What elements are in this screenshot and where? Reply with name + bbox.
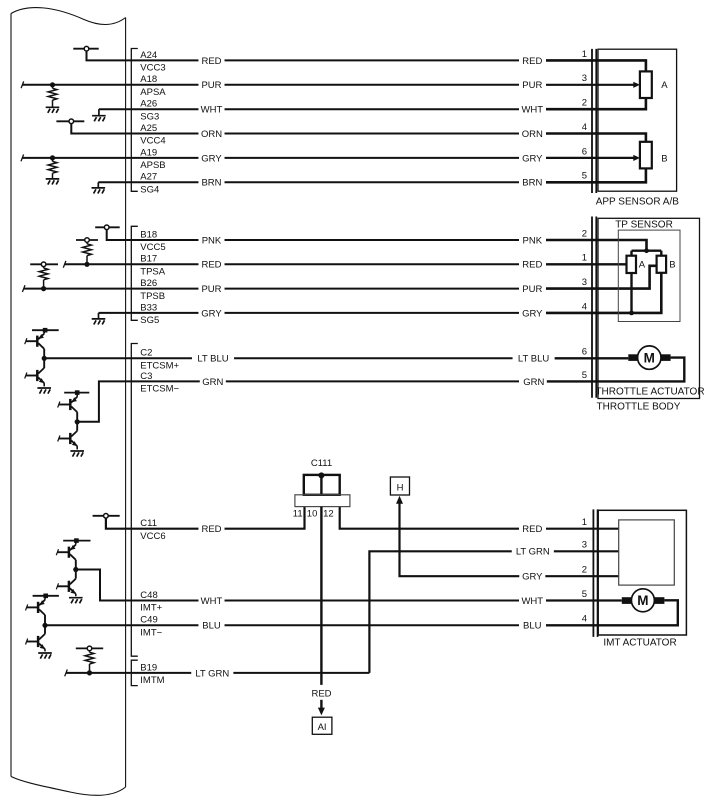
svg-text:10: 10: [307, 509, 318, 520]
resistor IMTM pull-up: [85, 651, 94, 673]
transistor ETCSM- high side: [58, 393, 77, 413]
power source VCC4: [56, 119, 84, 124]
svg-text:TPSB: TPSB: [140, 291, 165, 302]
svg-text:B17: B17: [140, 254, 157, 265]
power source VCC3: [73, 46, 98, 51]
node TP supply junction: [644, 248, 649, 253]
svg-text:LT GRN: LT GRN: [516, 547, 550, 558]
svg-text:A25: A25: [140, 123, 157, 134]
node IMT- junction: [42, 623, 47, 628]
svg-text:B33: B33: [140, 302, 157, 313]
svg-text:GRY: GRY: [522, 153, 543, 164]
node ETCSM- junction: [75, 419, 80, 424]
wire TPSA RED: [63, 261, 626, 268]
svg-text:B18: B18: [140, 229, 157, 240]
wire ETCSM- collector: [76, 412, 78, 431]
resistor TPSA pull-up: [83, 242, 92, 264]
svg-text:PUR: PUR: [522, 80, 542, 91]
svg-text:TPSA: TPSA: [140, 267, 165, 278]
motor IMT actuator: [631, 589, 654, 612]
svg-text:2: 2: [582, 98, 587, 109]
svg-text:B: B: [669, 260, 675, 271]
svg-text:3: 3: [582, 73, 587, 84]
svg-text:BRN: BRN: [522, 178, 542, 189]
svg-text:WHT: WHT: [521, 596, 543, 607]
arrow to AI: [318, 700, 325, 716]
svg-text:VCC5: VCC5: [140, 242, 165, 253]
svg-text:SG5: SG5: [140, 315, 159, 326]
power source TPSB pull-up: [30, 262, 58, 267]
svg-text:IMT+: IMT+: [140, 603, 162, 614]
potentiometer B: [640, 142, 652, 169]
ETCSM+ driver supply rail: [32, 328, 59, 333]
svg-text:C2: C2: [140, 348, 152, 359]
svg-text:A: A: [661, 80, 668, 91]
svg-text:BLU: BLU: [202, 621, 221, 632]
wire VCC5 PNK: [107, 230, 519, 241]
svg-text:6: 6: [582, 146, 587, 157]
THROTTLE BODY connector double line: [592, 217, 596, 398]
wire APSB GRY: [21, 155, 640, 162]
svg-text:SG3: SG3: [140, 111, 159, 122]
wire SG5 GRY: [99, 312, 520, 314]
svg-text:B26: B26: [140, 278, 157, 289]
svg-text:VCC4: VCC4: [140, 136, 165, 147]
svg-text:PNK: PNK: [523, 235, 543, 246]
svg-text:3: 3: [582, 540, 587, 551]
svg-text:6: 6: [582, 347, 587, 358]
transistor ETCSM- low side: [58, 431, 77, 450]
svg-text:THROTTLE BODY: THROTTLE BODY: [597, 402, 681, 413]
svg-text:VCC3: VCC3: [140, 63, 165, 74]
node IMTM junction: [87, 670, 92, 675]
svg-text:RED: RED: [311, 688, 331, 699]
svg-text:1: 1: [582, 49, 587, 60]
ground ETCSM+ driver: [37, 388, 51, 394]
transistor IMT- low side: [26, 634, 46, 652]
ground ETCSM- driver: [70, 451, 84, 457]
svg-text:ORN: ORN: [522, 129, 543, 140]
power source VCC5: [95, 225, 120, 230]
ground SG4: [92, 182, 106, 193]
svg-text:PNK: PNK: [202, 235, 222, 246]
power source VCC6: [93, 514, 120, 519]
IMT ACTUATOR box: [598, 510, 686, 635]
connector C111: [293, 458, 350, 520]
transistor IMT- high side: [26, 596, 46, 615]
ECM connector bracket 1: [131, 49, 138, 192]
wire color labels section 1 left: [198, 55, 224, 65]
svg-text:BRN: BRN: [201, 178, 221, 189]
svg-text:LT BLU: LT BLU: [518, 354, 549, 365]
svg-text:GRY: GRY: [522, 572, 543, 583]
svg-text:SG4: SG4: [140, 185, 159, 196]
node TPSA junction: [84, 262, 89, 267]
arrow to H and wire GRY: [396, 496, 619, 576]
svg-text:GRN: GRN: [202, 377, 223, 388]
svg-text:B: B: [661, 153, 667, 164]
svg-text:RED: RED: [522, 524, 542, 535]
svg-text:A: A: [639, 260, 646, 271]
svg-text:A18: A18: [140, 74, 157, 85]
svg-text:B19: B19: [140, 662, 157, 673]
throttle motor left brush: [628, 354, 637, 361]
svg-text:IMT ACTUATOR: IMT ACTUATOR: [603, 638, 676, 649]
wire TP pot A ground leg: [630, 273, 632, 313]
svg-text:RED: RED: [522, 260, 542, 271]
throttle motor right brush: [661, 354, 671, 361]
svg-text:ORN: ORN: [201, 129, 222, 140]
node ETCSM+ junction: [42, 356, 47, 361]
potentiometer A: [640, 71, 652, 98]
svg-text:M: M: [644, 350, 655, 365]
wire IMT+ collector: [75, 560, 77, 579]
wire VCC6 RED left: [106, 507, 305, 529]
wire color labels section 4 left: [198, 524, 224, 534]
svg-text:5: 5: [582, 171, 587, 182]
svg-text:RED: RED: [522, 56, 542, 67]
ECM torn page edge: [11, 8, 126, 796]
svg-text:2: 2: [582, 565, 587, 576]
svg-text:5: 5: [582, 589, 587, 600]
svg-text:12: 12: [323, 509, 334, 520]
svg-text:C111: C111: [311, 458, 332, 469]
svg-text:C3: C3: [140, 371, 152, 382]
svg-text:3: 3: [582, 277, 587, 288]
wire ETCSM- GRN: [77, 381, 519, 421]
svg-text:WHT: WHT: [201, 596, 223, 607]
ECM connector bracket 4: [131, 660, 138, 685]
THROTTLE BODY box: [598, 218, 700, 398]
power source TPSA pull-up: [76, 238, 98, 243]
transistor IMT+ high side: [56, 541, 76, 560]
svg-text:C48: C48: [140, 590, 157, 601]
wire LT GRN pin3: [369, 551, 618, 673]
svg-text:M: M: [637, 593, 648, 608]
svg-text:VCC6: VCC6: [140, 531, 165, 542]
svg-text:APSB: APSB: [140, 160, 165, 171]
ECM connector bracket 3: [131, 344, 138, 657]
svg-text:GRY: GRY: [201, 308, 222, 319]
TP potentiometer A: [627, 256, 637, 273]
ground APSB: [46, 179, 60, 185]
ground SG5: [92, 313, 106, 325]
IMT connector double line: [593, 509, 597, 637]
svg-text:RED: RED: [201, 56, 221, 67]
svg-text:APSA: APSA: [140, 87, 166, 98]
ECM connector bracket 2: [131, 226, 138, 320]
wire color labels section 1 right: [519, 55, 545, 65]
ground APSA: [46, 107, 60, 113]
wire VCC4 ORN: [71, 124, 519, 134]
svg-text:A27: A27: [140, 172, 157, 183]
wire TPSB PUR: [22, 266, 656, 292]
node APSB junction: [50, 155, 55, 160]
transistor ETCSM+ high side: [25, 330, 45, 349]
svg-text:4: 4: [582, 614, 587, 625]
wire SG4 BRN: [98, 181, 519, 183]
svg-text:RED: RED: [201, 524, 221, 535]
svg-text:RED: RED: [201, 260, 221, 271]
svg-text:THROTTLE ACTUATOR: THROTTLE ACTUATOR: [595, 387, 704, 398]
svg-text:GRY: GRY: [201, 153, 222, 164]
IMT motor right brush: [654, 597, 664, 604]
power source IMTM pull-up: [76, 646, 103, 651]
wire SG3 WHT: [99, 108, 519, 110]
ETCSM- driver supply rail: [64, 390, 89, 395]
svg-text:GRY: GRY: [522, 308, 543, 319]
node SG5 junction: [629, 311, 634, 316]
TP potentiometer B: [657, 256, 667, 273]
resistor TPSB pull-up: [39, 267, 48, 289]
svg-text:PUR: PUR: [522, 284, 542, 295]
wire C111 pin 10 down: [320, 507, 322, 685]
wire color labels section 2 left: [198, 235, 224, 245]
svg-text:IMTM: IMTM: [140, 675, 164, 686]
wire color labels section 2 right: [519, 235, 545, 245]
svg-text:LT BLU: LT BLU: [197, 354, 228, 365]
box H: [390, 477, 409, 495]
ground SG3: [92, 109, 106, 121]
wire APSA PUR: [21, 81, 640, 88]
svg-text:PUR: PUR: [201, 80, 221, 91]
svg-text:ETCSM−: ETCSM−: [140, 384, 179, 395]
wire TP pots supply bus: [632, 251, 662, 256]
svg-text:A19: A19: [140, 147, 157, 158]
svg-text:APP SENSOR A/B: APP SENSOR A/B: [596, 197, 680, 208]
IMT solenoid block: [619, 520, 675, 585]
wire color labels section 3: [192, 353, 234, 363]
transistor ETCSM+ low side: [25, 368, 45, 387]
svg-text:H: H: [397, 482, 404, 493]
svg-text:LT GRN: LT GRN: [195, 668, 229, 679]
svg-text:TP SENSOR: TP SENSOR: [615, 220, 673, 231]
ground IMT- driver: [38, 653, 52, 659]
svg-text:C49: C49: [140, 615, 157, 626]
svg-text:1: 1: [582, 253, 587, 264]
svg-text:AI: AI: [318, 722, 327, 733]
wire IMT- BLU: [45, 624, 519, 626]
node IMT+ junction: [73, 567, 78, 572]
wire VCC3 RED: [87, 51, 520, 61]
wire IMTM LT GRN: [65, 670, 370, 677]
motor throttle actuator: [638, 346, 661, 369]
node APSA junction: [50, 82, 55, 87]
svg-text:5: 5: [582, 370, 587, 381]
resistor APSB pull-down: [48, 158, 57, 179]
svg-text:4: 4: [582, 122, 587, 133]
IMT driver A supply rail: [63, 538, 90, 543]
svg-text:2: 2: [582, 228, 587, 239]
wire IMT- collector: [44, 615, 46, 634]
APP connector double line: [592, 49, 596, 193]
svg-text:BLU: BLU: [523, 621, 542, 632]
wire IMT+ WHT: [76, 570, 519, 601]
svg-text:C11: C11: [140, 518, 157, 529]
svg-text:11: 11: [293, 509, 303, 520]
svg-text:A26: A26: [140, 99, 157, 110]
node TPSB junction: [41, 286, 46, 291]
APP SENSOR box: [598, 49, 677, 191]
svg-text:PUR: PUR: [201, 284, 221, 295]
svg-text:4: 4: [582, 301, 587, 312]
svg-text:IMT−: IMT−: [140, 628, 162, 639]
svg-text:WHT: WHT: [521, 105, 543, 116]
wire RED C111 to IMT: [340, 507, 519, 529]
svg-text:1: 1: [582, 517, 587, 528]
IMT driver B supply rail: [33, 594, 59, 599]
TP SENSOR inner box: [618, 230, 680, 321]
svg-text:GRN: GRN: [523, 377, 544, 388]
ground IMT+ driver: [69, 598, 83, 604]
transistor IMT+ low side: [56, 579, 76, 597]
box AI: [312, 717, 332, 734]
resistor APSA pull-down: [48, 85, 57, 108]
wire ETCSM+ collector: [43, 349, 45, 368]
svg-text:WHT: WHT: [201, 105, 223, 116]
wire ETCSM+ LT BLU: [44, 357, 519, 359]
wire color labels section 4 right: [519, 524, 545, 534]
IMT motor left brush: [622, 597, 632, 604]
svg-text:A24: A24: [140, 50, 157, 61]
